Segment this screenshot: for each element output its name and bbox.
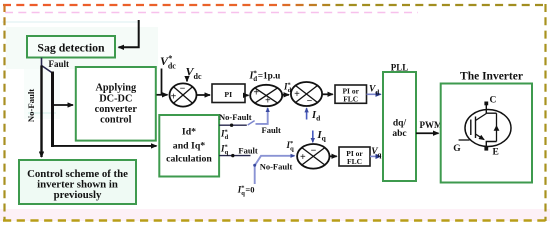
IGBT gate bar	[470, 120, 472, 136]
svg-text:converter: converter	[95, 104, 138, 115]
dashed frame bottom	[3, 219, 547, 221]
summing junction S4	[297, 144, 329, 169]
ghost cyan line top	[2, 21, 140, 23]
summing junction S1	[170, 83, 197, 106]
svg-text:PI: PI	[224, 90, 232, 99]
wire Iq*=0 up and switch blade to S4	[255, 156, 295, 184]
svg-text:No-Fault: No-Fault	[26, 89, 36, 122]
wire switch to S2 bottom	[256, 108, 268, 124]
svg-text:calculation: calculation	[166, 154, 212, 165]
dashed frame right	[544, 4, 546, 221]
dashed frame left	[3, 4, 5, 221]
IGBT emitter diagonal with arrow	[476, 134, 485, 140]
ghost pink dashed line	[5, 12, 418, 14]
wire S1 to PI	[197, 94, 211, 96]
box PI or FLC (d axis)	[335, 85, 367, 104]
wire S4 to PI or FLC (q)	[330, 155, 337, 157]
svg-text:+: +	[265, 95, 271, 106]
svg-text:FLC: FLC	[343, 95, 358, 104]
svg-text:−: −	[307, 96, 313, 107]
wire PI to S2	[245, 94, 249, 96]
halo tint left bus area	[24, 69, 60, 119]
wire arrow from top into Sag detection	[119, 20, 139, 47]
svg-text:PWM: PWM	[420, 120, 443, 130]
svg-text:No-Fault: No-Fault	[260, 162, 293, 172]
svg-text:G: G	[453, 144, 461, 154]
svg-text:previously: previously	[54, 189, 102, 201]
wire S2 to S3	[282, 94, 289, 96]
svg-text:dq/: dq/	[393, 119, 407, 129]
IGBT circle	[465, 110, 511, 147]
halo tint around sag area	[6, 27, 158, 69]
IGBT collector diagonal	[476, 114, 487, 121]
svg-text:control: control	[100, 115, 131, 126]
wire calc box No-Fault output	[219, 124, 247, 126]
wire S3 to PI or FLC	[322, 93, 333, 95]
wire PWM arrow to inverter	[416, 132, 439, 134]
wire Vdc* into summer 1	[161, 69, 163, 95]
box dq/abc	[383, 72, 416, 181]
svg-text:Fault: Fault	[49, 59, 70, 69]
svg-text:I*d=1p.u: I*d=1p.u	[249, 69, 281, 83]
IGBT collector terminal dot	[484, 102, 488, 106]
svg-text:Fault: Fault	[262, 125, 282, 135]
svg-text:Applying: Applying	[95, 83, 136, 94]
box PI	[212, 84, 245, 103]
dashed frame top	[3, 4, 547, 6]
svg-text:No-Fault: No-Fault	[219, 112, 252, 122]
svg-text:−: −	[180, 84, 186, 95]
svg-text:−: −	[311, 145, 317, 156]
box Id* and Iq* calculation	[159, 115, 219, 177]
svg-text:FLC: FLC	[347, 157, 362, 166]
wire diagonal to Fault bus	[42, 66, 53, 74]
svg-text:+: +	[294, 89, 300, 100]
IGBT channel bar	[475, 117, 477, 139]
wire arrow into DC-DC box	[53, 104, 74, 106]
switch blade d axis	[248, 121, 255, 125]
svg-text:Sag detection: Sag detection	[37, 41, 105, 55]
box Control scheme of the inverter	[19, 160, 136, 204]
svg-text:Id*: Id*	[182, 127, 196, 138]
wire Fault vertical bus	[51, 72, 54, 148]
IGBT gate lead	[459, 139, 470, 141]
wire Iq arrow down into S4	[312, 131, 314, 143]
box Applying DC-DC converter control	[76, 67, 156, 141]
box Sag detection	[27, 36, 115, 58]
svg-text:+: +	[300, 152, 306, 163]
IGBT collector lead	[486, 104, 496, 113]
pink halo band above bottom border	[0, 209, 550, 221]
box The Inverter	[441, 84, 532, 183]
svg-text:+: +	[253, 88, 259, 99]
wire Vq to dq/abc	[370, 155, 381, 157]
wire Vd to dq/abc	[367, 93, 381, 95]
IGBT emitter lead	[486, 142, 496, 149]
summing junction S2	[250, 85, 282, 107]
svg-text:+: +	[171, 92, 177, 103]
wire from Sag detection down	[41, 58, 43, 66]
ghost cyan line left mid	[28, 112, 56, 114]
IGBT diode triangle	[494, 125, 500, 131]
IGBT emitter terminal dot	[484, 147, 488, 151]
svg-text:abc: abc	[392, 129, 406, 139]
svg-text:and Iq*: and Iq*	[173, 141, 206, 152]
wire calc box Fault output (q)	[219, 155, 250, 157]
summing junction S3	[291, 82, 322, 107]
svg-text:E: E	[493, 148, 499, 158]
svg-text:Fault: Fault	[238, 146, 258, 156]
wire Vdc arrow into summer 1 top	[186, 79, 188, 82]
svg-text:DC-DC: DC-DC	[99, 93, 132, 104]
wire No-Fault vertical bus	[40, 66, 42, 158]
wire Id feedback arrow up into S3	[306, 108, 308, 119]
svg-text:The Inverter: The Inverter	[460, 71, 523, 83]
svg-text:C: C	[490, 96, 497, 106]
IGBT antiparallel diode line	[496, 113, 498, 141]
box PI or FLC (q axis)	[339, 147, 370, 166]
wire Fault bus to calculation box	[51, 145, 157, 147]
